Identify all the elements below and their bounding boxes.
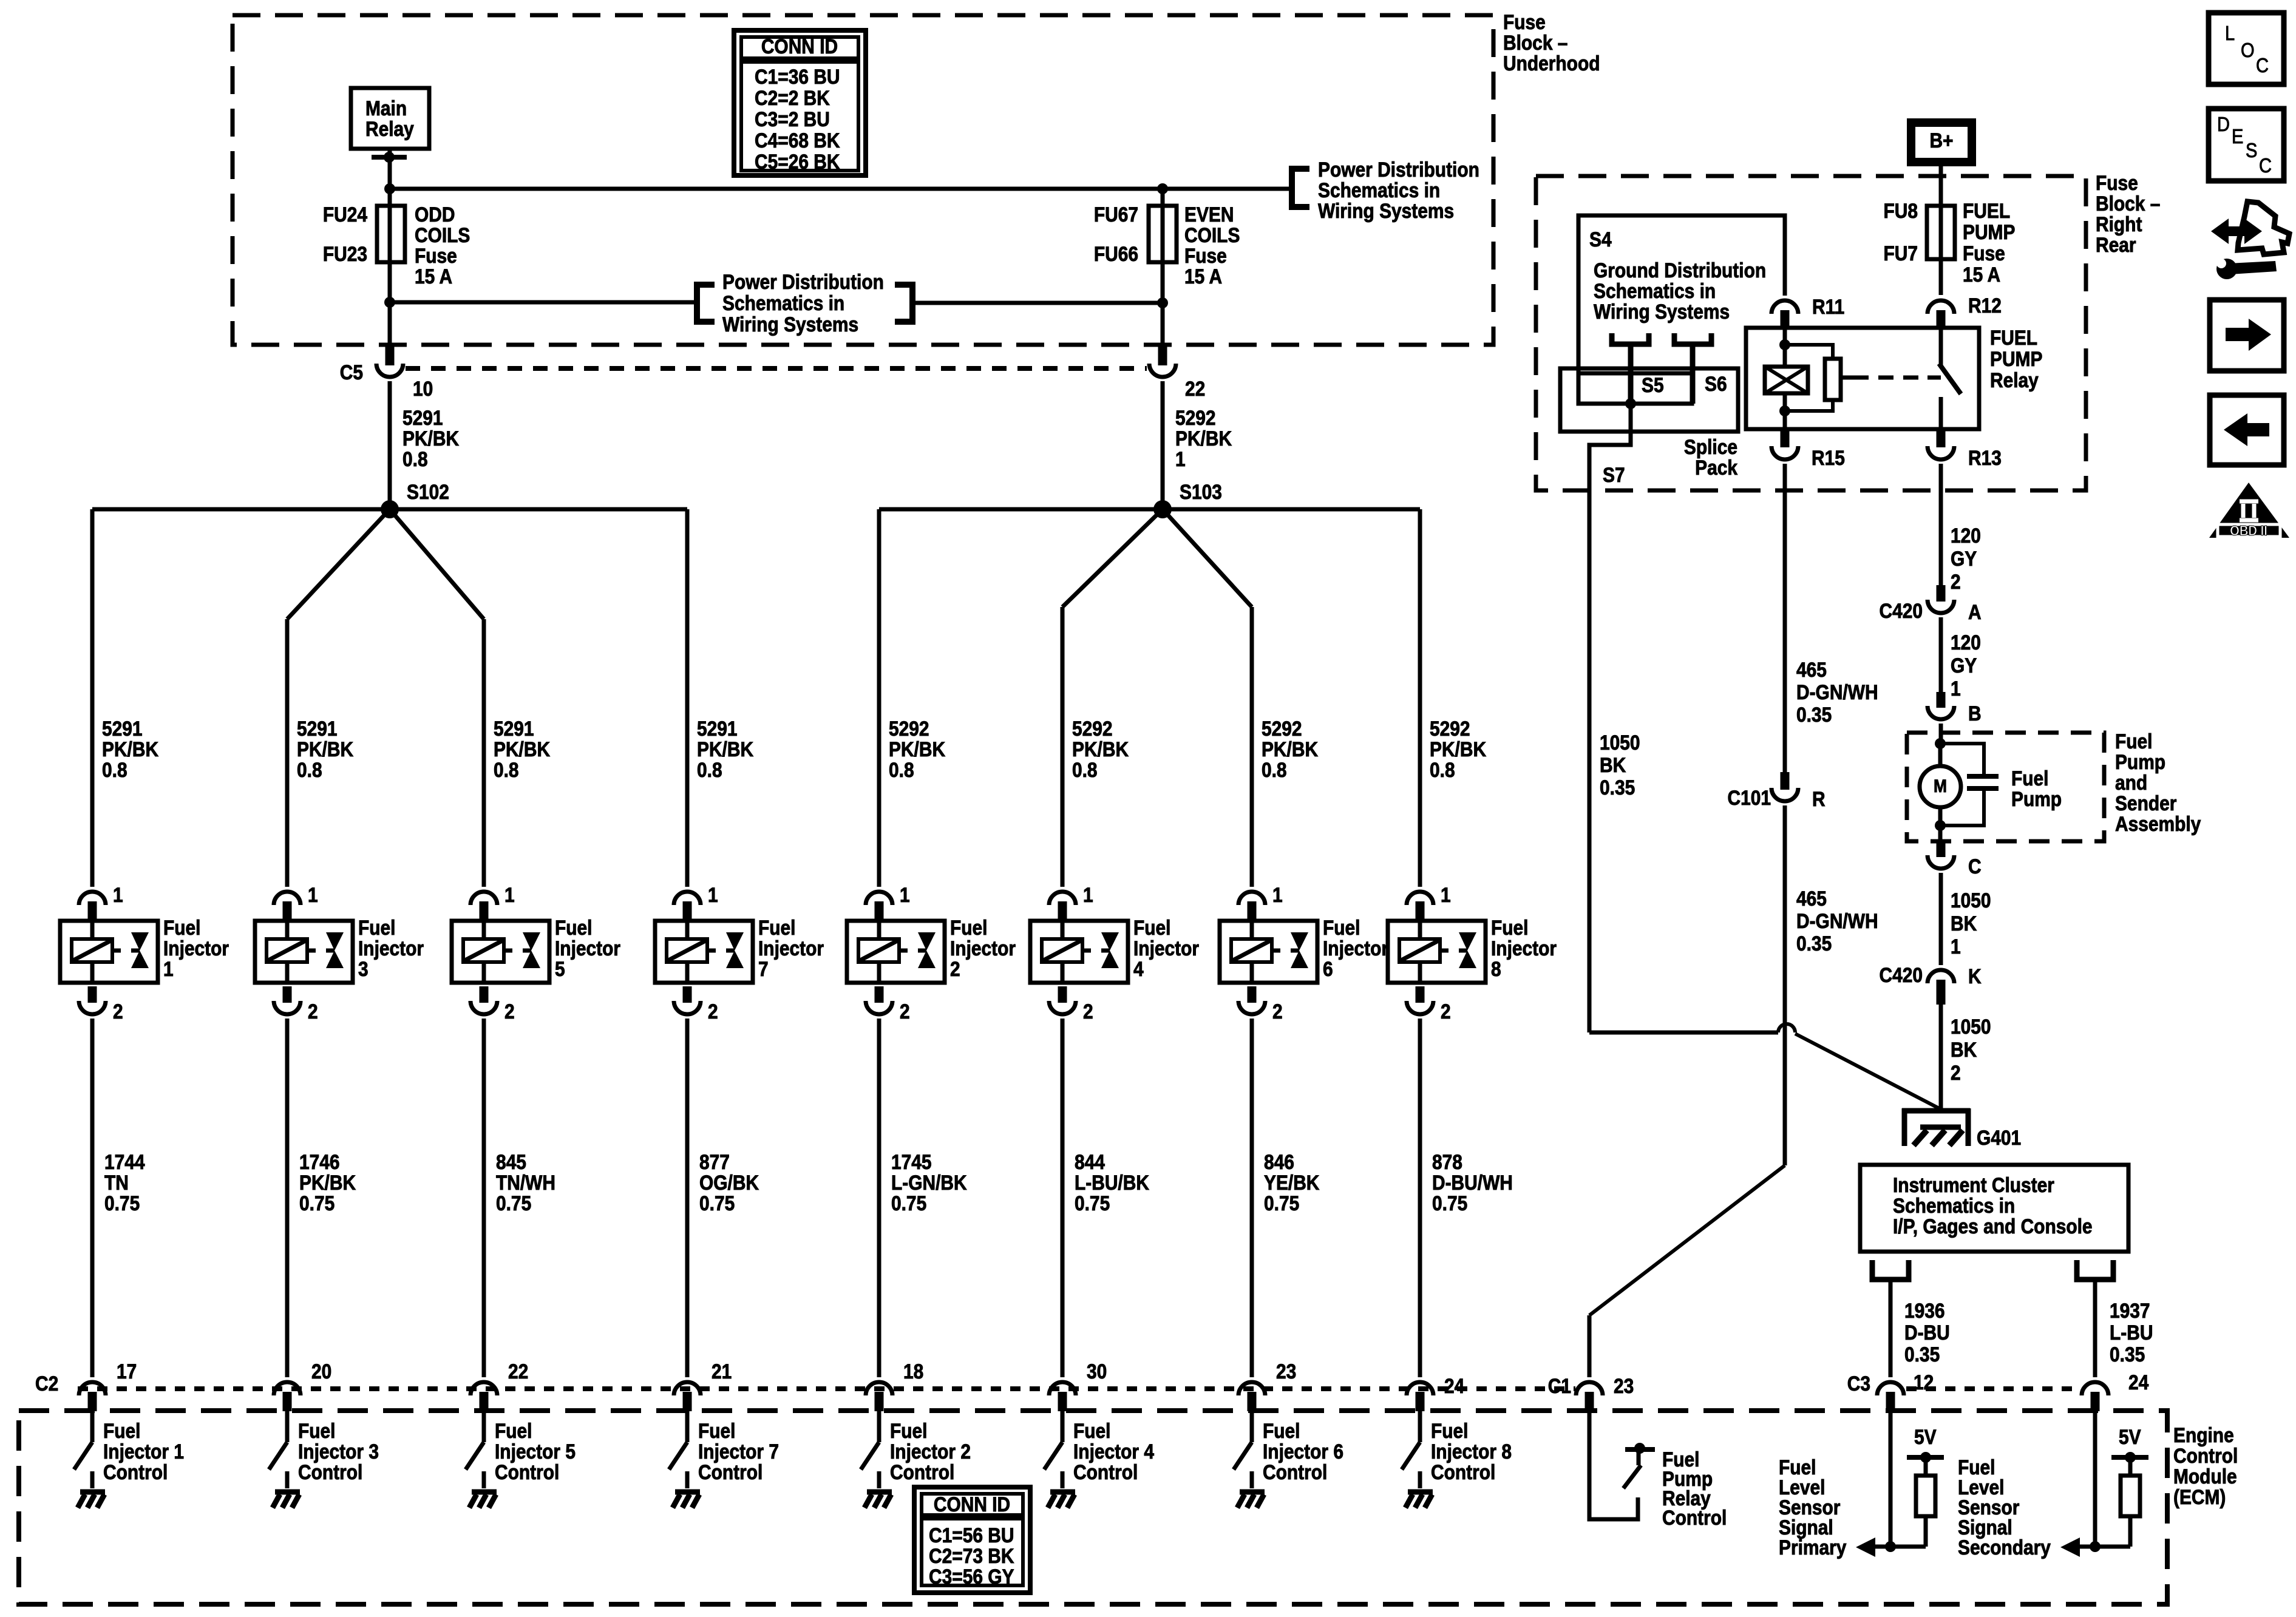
- svg-text:C2=73 BK: C2=73 BK: [929, 1544, 1014, 1567]
- connector R13: [1937, 429, 1946, 447]
- svg-text:YE/BK: YE/BK: [1264, 1171, 1319, 1194]
- svg-text:5292: 5292: [1262, 717, 1302, 740]
- node S5/S7 junction: [1625, 398, 1636, 409]
- svg-text:22: 22: [508, 1360, 528, 1383]
- svg-text:8: 8: [1491, 957, 1501, 980]
- svg-text:30: 30: [1087, 1360, 1107, 1383]
- svg-text:846: 846: [1264, 1150, 1294, 1173]
- svg-text:A: A: [1968, 600, 1982, 623]
- svg-text:PK/BK: PK/BK: [697, 737, 753, 761]
- svg-text:Control: Control: [1263, 1460, 1327, 1483]
- svg-text:Pack: Pack: [1695, 456, 1737, 479]
- svg-text:Fuel: Fuel: [950, 916, 988, 939]
- svg-text:Assembly: Assembly: [2115, 812, 2201, 835]
- wire 5291/5292 PK/BK feed column injector 5: [482, 619, 486, 887]
- fuel injector 2 pin 1: [866, 892, 892, 905]
- harness dotted line at C2: [78, 1386, 1575, 1391]
- svg-text:120: 120: [1951, 631, 1981, 654]
- svg-text:L-BU: L-BU: [2110, 1321, 2153, 1344]
- svg-text:5292: 5292: [889, 717, 929, 740]
- fuel injector 4 pin 2: [1058, 986, 1067, 1003]
- svg-text:Fuel: Fuel: [1263, 1419, 1300, 1442]
- svg-text:Power Distribution: Power Distribution: [1318, 158, 1479, 181]
- ground (fuel injector 2 control): [867, 1490, 892, 1495]
- fuel injector 1 pin 1: [79, 892, 106, 905]
- svg-text:5291: 5291: [297, 717, 338, 740]
- DESC icon: [2209, 109, 2284, 181]
- connector C2 pin 24: [1407, 1382, 1433, 1395]
- ground (fuel injector 7 control): [675, 1490, 700, 1495]
- wire: [1062, 509, 1163, 607]
- svg-text:Splice: Splice: [1684, 435, 1737, 458]
- CONN ID table (top): [734, 30, 866, 175]
- left arrow icon: [2210, 395, 2284, 465]
- connector C2 pin 21: [674, 1382, 701, 1395]
- wire to fuel pump relay control: [1589, 1165, 1785, 1315]
- wire 1050 BK 1: [1939, 873, 1943, 965]
- svg-text:24: 24: [2128, 1371, 2148, 1394]
- svg-text:Schematics in: Schematics in: [1893, 1194, 2015, 1217]
- svg-text:Control: Control: [890, 1460, 954, 1483]
- svg-text:0.75: 0.75: [1264, 1192, 1299, 1215]
- svg-text:Fuel: Fuel: [698, 1419, 736, 1442]
- connector R15: [1781, 429, 1790, 447]
- svg-text:FU8: FU8: [1883, 199, 1918, 222]
- svg-text:0.75: 0.75: [699, 1192, 735, 1215]
- relay actuation dashed link: [1853, 376, 1927, 380]
- svg-text:C: C: [1968, 855, 1982, 878]
- svg-text:0.75: 0.75: [1075, 1192, 1110, 1215]
- wire B+ to FU8: [1939, 162, 1943, 206]
- svg-text:Fuel: Fuel: [890, 1419, 928, 1442]
- svg-text:Injector 7: Injector 7: [698, 1440, 779, 1463]
- svg-text:D-BU: D-BU: [1904, 1321, 1950, 1344]
- svg-text:Rear: Rear: [2096, 233, 2136, 256]
- svg-text:Control: Control: [495, 1460, 559, 1483]
- svg-text:5291: 5291: [697, 717, 738, 740]
- svg-text:5292: 5292: [1175, 406, 1216, 429]
- svg-text:5291: 5291: [102, 717, 143, 740]
- fuel injector 7 pin 2: [683, 986, 692, 1003]
- svg-text:1: 1: [1951, 677, 1961, 700]
- svg-text:Wiring Systems: Wiring Systems: [722, 313, 858, 336]
- fuel injector 7 control switch: [685, 1411, 690, 1442]
- svg-text:GY: GY: [1951, 547, 1977, 570]
- svg-text:COILS: COILS: [1184, 223, 1240, 246]
- svg-text:C: C: [2259, 154, 2272, 177]
- fuel injector 5 pin 2: [480, 986, 489, 1003]
- svg-text:Control: Control: [1073, 1460, 1138, 1483]
- svg-text:Injector 1: Injector 1: [103, 1440, 184, 1463]
- wire 465 D-GN/WH 0.35 (lower): [1783, 805, 1787, 1165]
- fuel injector 6 pin 2: [1248, 986, 1257, 1003]
- svg-text:Fuel: Fuel: [1431, 1419, 1469, 1442]
- wire 120 GY 2: [1939, 464, 1943, 585]
- svg-text:PK/BK: PK/BK: [889, 737, 945, 761]
- wire 120 GY 1: [1939, 617, 1943, 692]
- splice pack outer box: [1560, 368, 1738, 432]
- svg-text:FU67: FU67: [1094, 203, 1138, 226]
- svg-text:3: 3: [358, 957, 369, 980]
- splice fork S6: [1674, 333, 1711, 344]
- svg-text:Control: Control: [1662, 1506, 1727, 1529]
- svg-text:TN: TN: [104, 1171, 129, 1194]
- fuel injector 1 control switch: [90, 1411, 95, 1442]
- svg-text:Injector 4: Injector 4: [1073, 1440, 1154, 1463]
- svg-text:PK/BK: PK/BK: [1072, 737, 1129, 761]
- fuel pump relay control: [1589, 1411, 1638, 1519]
- svg-text:465: 465: [1796, 887, 1827, 910]
- node: even feed junction top: [1157, 183, 1168, 194]
- LOC icon: [2209, 13, 2284, 84]
- svg-text:2: 2: [1951, 1061, 1961, 1084]
- wire to power distribution (top): [390, 187, 1291, 191]
- svg-text:Control: Control: [103, 1460, 168, 1483]
- fuel injector 3 pin 2: [283, 986, 292, 1003]
- power distribution schematics label (top): [1292, 169, 1309, 207]
- wire 1746 PK/BK 0.75: [285, 1019, 290, 1377]
- fuel injector 3 pin 1: [274, 892, 301, 905]
- svg-text:Fuel: Fuel: [2115, 730, 2153, 753]
- svg-text:Injector: Injector: [555, 937, 620, 960]
- fuel injector 3: [255, 921, 353, 983]
- fuel injector 4 control switch: [1061, 1411, 1065, 1442]
- svg-text:0.8: 0.8: [102, 758, 127, 781]
- svg-text:C3=56 GY: C3=56 GY: [929, 1565, 1014, 1588]
- node: [1935, 738, 1946, 749]
- ground (fuel injector 1 control): [80, 1490, 105, 1495]
- svg-text:OG/BK: OG/BK: [699, 1171, 759, 1194]
- service/wrench icon: [2211, 219, 2262, 244]
- svg-text:6: 6: [1323, 957, 1333, 980]
- svg-text:Injector 8: Injector 8: [1431, 1440, 1512, 1463]
- node: below FU23: [384, 297, 395, 308]
- svg-text:0.35: 0.35: [2110, 1343, 2145, 1366]
- svg-text:Schematics in: Schematics in: [1594, 279, 1716, 302]
- svg-text:Fuel: Fuel: [555, 916, 593, 939]
- svg-text:1744: 1744: [104, 1150, 145, 1173]
- wire 5291/5292 PK/BK feed column injector 4: [1061, 607, 1065, 887]
- ground (fuel injector 8 control): [1408, 1490, 1433, 1495]
- svg-text:0.35: 0.35: [1796, 703, 1832, 726]
- svg-text:Fuel: Fuel: [1073, 1419, 1111, 1442]
- fuel injector 1 pin 2: [88, 986, 97, 1003]
- svg-text:2: 2: [504, 1000, 515, 1023]
- svg-text:PK/BK: PK/BK: [297, 737, 353, 761]
- svg-text:Secondary: Secondary: [1958, 1536, 2051, 1559]
- connector C3 pin 12: [1877, 1382, 1904, 1395]
- svg-text:Fuel: Fuel: [1323, 916, 1360, 939]
- fuel injector 5 control switch: [482, 1411, 486, 1442]
- svg-text:Fuel: Fuel: [2011, 767, 2049, 790]
- svg-text:C2: C2: [35, 1372, 58, 1395]
- svg-text:Fuse: Fuse: [1963, 242, 2005, 265]
- svg-text:COILS: COILS: [415, 223, 470, 246]
- wire 877 OG/BK 0.75: [685, 1019, 690, 1377]
- svg-text:22: 22: [1185, 377, 1205, 400]
- svg-text:PUMP: PUMP: [1990, 347, 2042, 370]
- svg-text:B+: B+: [1929, 129, 1953, 152]
- connector pin C: [1937, 841, 1946, 857]
- wire: [287, 509, 390, 619]
- connector C2 pin 30: [1049, 1382, 1076, 1395]
- svg-text:Injector: Injector: [1133, 937, 1199, 960]
- svg-text:1050: 1050: [1951, 889, 1991, 912]
- relay switch: [1939, 328, 1943, 365]
- svg-text:CONN ID: CONN ID: [761, 35, 838, 58]
- svg-text:0.8: 0.8: [297, 758, 322, 781]
- fuel injector 2: [847, 921, 945, 983]
- B+ battery feed: [1911, 123, 1972, 162]
- svg-text:D-GN/WH: D-GN/WH: [1796, 680, 1878, 703]
- fuel pump relay: [1746, 328, 1979, 429]
- svg-text:O: O: [2241, 39, 2255, 61]
- svg-text:0.8: 0.8: [889, 758, 914, 781]
- svg-text:18: 18: [903, 1360, 923, 1383]
- fuse FU67/FU66 EVEN COILS 15A: [1149, 206, 1177, 262]
- svg-text:Fuse: Fuse: [2096, 171, 2138, 194]
- svg-text:0.75: 0.75: [104, 1192, 140, 1215]
- svg-text:Fuse: Fuse: [1503, 10, 1546, 33]
- svg-text:PUMP: PUMP: [1963, 220, 2015, 243]
- svg-text:2: 2: [1951, 570, 1961, 593]
- svg-text:0.75: 0.75: [496, 1192, 531, 1215]
- svg-text:Sender: Sender: [2115, 792, 2176, 815]
- svg-text:C5: C5: [340, 361, 363, 384]
- svg-text:Pump: Pump: [2011, 787, 2062, 810]
- svg-text:Injector: Injector: [1491, 937, 1557, 960]
- svg-text:PK/BK: PK/BK: [102, 737, 158, 761]
- wire 1744 TN 0.75: [90, 1019, 95, 1377]
- svg-text:S7: S7: [1603, 463, 1625, 486]
- svg-text:5V: 5V: [1914, 1425, 1937, 1448]
- wire 844 L-BU/BK 0.75: [1061, 1019, 1065, 1377]
- connector C3 pin 24: [2082, 1382, 2108, 1395]
- svg-text:Control: Control: [698, 1460, 763, 1483]
- wire 465 D-GN/WH 0.35 (upper): [1783, 464, 1787, 772]
- cluster connector bracket 1: [1872, 1260, 1909, 1280]
- svg-text:1: 1: [1951, 935, 1961, 958]
- fuel injector 1: [60, 921, 158, 983]
- connector C420 pin A: [1937, 585, 1946, 602]
- fuel injector 6 pin 1: [1238, 892, 1265, 905]
- wire: [388, 149, 392, 189]
- svg-text:2: 2: [950, 957, 960, 980]
- svg-text:M: M: [1934, 775, 1947, 796]
- relay resistor: [1785, 345, 1833, 359]
- svg-text:Relay: Relay: [365, 117, 414, 140]
- fuel injector 7: [655, 921, 753, 983]
- connector C5 pin 22: [1158, 345, 1167, 365]
- svg-text:PK/BK: PK/BK: [1430, 737, 1486, 761]
- svg-text:Injector: Injector: [358, 937, 424, 960]
- svg-text:Schematics in: Schematics in: [722, 291, 844, 314]
- svg-text:Fuel: Fuel: [758, 916, 796, 939]
- fuse block right rear dashed box: [1536, 176, 2086, 490]
- svg-text:FU24: FU24: [323, 203, 367, 226]
- svg-text:EVEN: EVEN: [1184, 203, 1234, 226]
- svg-text:2: 2: [1083, 1000, 1093, 1023]
- fuel level sensor signal primary wire: [1889, 1411, 1893, 1547]
- svg-text:0.75: 0.75: [299, 1192, 335, 1215]
- svg-text:1050: 1050: [1600, 731, 1640, 754]
- ground (fuel injector 3 control): [275, 1490, 300, 1495]
- svg-text:0.75: 0.75: [1432, 1192, 1467, 1215]
- svg-text:844: 844: [1075, 1150, 1105, 1173]
- fuel injector 3 control switch: [285, 1411, 290, 1442]
- svg-text:R15: R15: [1812, 446, 1845, 469]
- wire 1745 L-GN/BK 0.75: [877, 1019, 881, 1377]
- svg-text:2: 2: [1441, 1000, 1451, 1023]
- svg-text:GY: GY: [1951, 654, 1977, 677]
- node: relay output tick: [372, 155, 407, 160]
- wire S7: [1589, 404, 1631, 1032]
- svg-text:1: 1: [113, 883, 123, 906]
- svg-text:1937: 1937: [2110, 1299, 2150, 1322]
- wire to power distribution (middle-left): [390, 300, 696, 305]
- fuel injector 6 control switch: [1250, 1411, 1254, 1442]
- connector C2 pin 18: [866, 1382, 892, 1395]
- svg-text:C3=2 BU: C3=2 BU: [755, 107, 830, 131]
- fuse FU8/FU7 FUEL PUMP 15A: [1927, 206, 1955, 259]
- svg-text:5291: 5291: [494, 717, 534, 740]
- wire 878 D-BU/WH 0.75: [1418, 1019, 1422, 1377]
- svg-text:0.8: 0.8: [1430, 758, 1455, 781]
- svg-text:PK/BK: PK/BK: [402, 427, 459, 450]
- svg-text:Injector 2: Injector 2: [890, 1440, 971, 1463]
- svg-text:0.75: 0.75: [891, 1192, 926, 1215]
- svg-text:S5: S5: [1642, 373, 1664, 396]
- svg-text:and: and: [2115, 771, 2147, 794]
- svg-text:PK/BK: PK/BK: [299, 1171, 356, 1194]
- svg-text:OBD II: OBD II: [2230, 523, 2267, 539]
- splice S102: [381, 500, 399, 518]
- svg-text:5292: 5292: [1430, 717, 1470, 740]
- fuel injector 8: [1388, 921, 1486, 983]
- svg-text:C420: C420: [1879, 963, 1923, 986]
- svg-text:TN/WH: TN/WH: [496, 1171, 555, 1194]
- svg-text:C3: C3: [1847, 1372, 1870, 1395]
- svg-text:Fuel: Fuel: [358, 916, 396, 939]
- splice S103: [1153, 500, 1172, 518]
- harness dotted line at C5: [406, 366, 1147, 371]
- svg-text:Fuel: Fuel: [1491, 916, 1529, 939]
- wire hop over C101 wire: [1778, 1024, 1795, 1032]
- svg-text:15 A: 15 A: [415, 265, 452, 288]
- svg-text:5V: 5V: [2119, 1425, 2141, 1448]
- resistor (primary pull-up): [1916, 1476, 1935, 1516]
- svg-text:R: R: [1812, 787, 1826, 810]
- fuel injector 2 control switch: [877, 1411, 881, 1442]
- svg-text:2: 2: [708, 1000, 718, 1023]
- svg-text:Schematics in: Schematics in: [1318, 178, 1440, 202]
- connector R11: [1771, 300, 1798, 314]
- svg-text:D-GN/WH: D-GN/WH: [1796, 909, 1878, 932]
- svg-text:1936: 1936: [1904, 1299, 1945, 1322]
- svg-text:L-GN/BK: L-GN/BK: [891, 1171, 967, 1194]
- fuel injector 5: [452, 921, 549, 983]
- svg-text:15 A: 15 A: [1963, 263, 2000, 286]
- svg-text:1746: 1746: [299, 1150, 340, 1173]
- fuel injector 8 pin 2: [1416, 986, 1425, 1003]
- svg-text:C5=26 BK: C5=26 BK: [755, 150, 840, 173]
- svg-text:Injector: Injector: [163, 937, 229, 960]
- svg-text:R11: R11: [1812, 295, 1844, 318]
- fuel injector 5 pin 1: [470, 892, 497, 905]
- svg-text:Fuel: Fuel: [298, 1419, 336, 1442]
- fuel level sensor signal secondary wire: [2093, 1411, 2097, 1547]
- svg-text:1745: 1745: [891, 1150, 932, 1173]
- splice pack S5 inner box: [1578, 373, 1692, 404]
- svg-text:Ground Distribution: Ground Distribution: [1594, 259, 1766, 282]
- svg-text:Injector: Injector: [950, 937, 1016, 960]
- svg-text:1: 1: [308, 883, 318, 906]
- svg-text:0.8: 0.8: [1262, 758, 1287, 781]
- connector R12: [1927, 300, 1954, 314]
- svg-text:0.8: 0.8: [402, 447, 428, 470]
- svg-text:PK/BK: PK/BK: [1262, 737, 1318, 761]
- splice fork S5: [1612, 333, 1649, 344]
- svg-text:Control: Control: [298, 1460, 362, 1483]
- svg-text:1: 1: [1083, 883, 1093, 906]
- wire 5291/5292 PK/BK feed column injector 8: [1418, 509, 1422, 887]
- fuel injector 8 pin 1: [1407, 892, 1433, 905]
- svg-text:Fuse: Fuse: [415, 244, 457, 267]
- svg-text:21: 21: [712, 1360, 732, 1383]
- svg-text:1: 1: [900, 883, 910, 906]
- svg-text:2: 2: [113, 1000, 123, 1023]
- svg-text:BK: BK: [1600, 753, 1626, 776]
- wire 5291 PK/BK 0.8: [388, 381, 392, 509]
- connector C2 pin 20: [274, 1382, 301, 1395]
- svg-text:S6: S6: [1705, 372, 1727, 395]
- svg-text:L-BU/BK: L-BU/BK: [1075, 1171, 1149, 1194]
- svg-text:Injector 5: Injector 5: [495, 1440, 576, 1463]
- svg-text:2: 2: [308, 1000, 318, 1023]
- ground (fuel injector 6 control): [1240, 1490, 1265, 1495]
- fuse block underhood dashed box: [233, 15, 1493, 345]
- svg-text:17: 17: [117, 1360, 137, 1383]
- connector C2 pin 22: [470, 1382, 497, 1395]
- svg-text:1: 1: [1272, 883, 1283, 906]
- fuel injector 4 pin 1: [1049, 892, 1076, 905]
- connector C2 pin 17: [79, 1382, 106, 1395]
- svg-text:465: 465: [1796, 658, 1827, 681]
- svg-text:C420: C420: [1879, 599, 1923, 622]
- wire 5291/5292 PK/BK feed column injector 7: [685, 509, 690, 887]
- connector C101 pin R: [1781, 772, 1790, 790]
- svg-text:Fuel: Fuel: [495, 1419, 532, 1442]
- svg-text:120: 120: [1951, 524, 1981, 547]
- svg-text:1: 1: [1441, 883, 1451, 906]
- svg-text:Main: Main: [365, 97, 407, 120]
- svg-text:Instrument Cluster: Instrument Cluster: [1893, 1173, 2054, 1196]
- svg-text:R13: R13: [1968, 446, 2002, 469]
- svg-text:Power Distribution: Power Distribution: [722, 270, 884, 293]
- OBD II icon: [2209, 483, 2289, 538]
- svg-text:845: 845: [496, 1150, 526, 1173]
- svg-text:Block –: Block –: [1503, 31, 1567, 54]
- svg-text:FU66: FU66: [1094, 242, 1138, 265]
- wire from label to even feed: [912, 301, 1163, 305]
- connector C5 pin 10: [388, 302, 392, 345]
- svg-text:C4=68 BK: C4=68 BK: [755, 129, 840, 152]
- svg-text:E: E: [2232, 125, 2243, 147]
- svg-text:Control: Control: [1431, 1460, 1495, 1483]
- svg-text:C101: C101: [1727, 786, 1771, 809]
- svg-text:Wiring Systems: Wiring Systems: [1318, 199, 1454, 222]
- node: below FU66: [1157, 297, 1168, 308]
